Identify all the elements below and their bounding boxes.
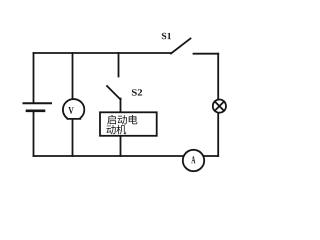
- battery B1 short plate (-): [27, 110, 44, 113]
- wire bottom bus right segment: [203, 155, 218, 157]
- wire switch S2 top contact: [118, 53, 120, 77]
- wire motor box to bottom bus: [120, 136, 122, 156]
- voltmeter V circle: [63, 99, 84, 119]
- wire voltmeter top branch: [72, 53, 74, 98]
- motor box label 启动电动机 (vector glyphs): [106, 115, 137, 134]
- ammeter A letter: [191, 156, 195, 163]
- wire top bus: [34, 52, 172, 54]
- wire right vertical to lamp: [217, 54, 219, 100]
- wire switch S2 to motor box: [120, 99, 122, 113]
- wire voltmeter bottom branch: [72, 119, 74, 156]
- wire top right segment: [194, 53, 219, 55]
- switch S2 blade (open): [107, 86, 121, 100]
- motor M box outline: [100, 112, 157, 136]
- switch S1 blade (open): [171, 39, 191, 54]
- wire left vertical upper (battery top lead): [33, 53, 35, 103]
- label S1: [162, 33, 171, 39]
- battery B1 long plate (+): [24, 102, 52, 104]
- wire lamp to bottom right corner: [217, 113, 219, 156]
- lamp L cross stroke 2: [215, 102, 224, 111]
- lamp L circle: [213, 100, 226, 113]
- lamp L cross stroke 1: [215, 102, 224, 111]
- wire left vertical lower (battery bottom lead): [33, 112, 35, 157]
- ammeter A circle: [183, 150, 204, 171]
- voltmeter V letter: [68, 107, 73, 114]
- wire bottom bus left: [34, 155, 184, 157]
- label S2: [132, 89, 142, 95]
